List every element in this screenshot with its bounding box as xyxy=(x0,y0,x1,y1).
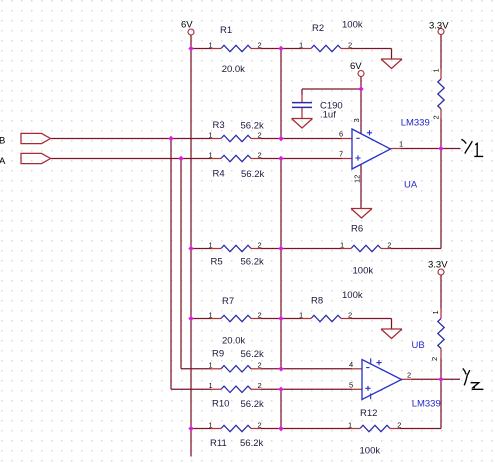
svg-text:2: 2 xyxy=(432,115,441,119)
svg-text:2: 2 xyxy=(258,130,262,139)
svg-text:1: 1 xyxy=(209,381,213,390)
svg-text:UB: UB xyxy=(412,340,425,351)
svg-text:LM339: LM339 xyxy=(412,399,441,410)
svg-text:12: 12 xyxy=(353,175,362,183)
svg-text:UA: UA xyxy=(404,180,418,191)
svg-text:2: 2 xyxy=(258,40,262,49)
svg-text:1: 1 xyxy=(399,140,403,149)
svg-text:4: 4 xyxy=(349,360,353,369)
svg-text:6V: 6V xyxy=(181,20,193,31)
svg-text:R12: R12 xyxy=(360,408,377,419)
svg-text:2: 2 xyxy=(348,310,352,319)
svg-text:100k: 100k xyxy=(360,446,381,457)
svg-text:6V: 6V xyxy=(350,61,362,72)
svg-text:1: 1 xyxy=(209,361,213,370)
svg-text:56.2k: 56.2k xyxy=(241,349,264,360)
svg-text:100k: 100k xyxy=(353,266,374,277)
svg-text:A: A xyxy=(0,156,6,167)
svg-text:R4: R4 xyxy=(213,169,225,180)
svg-text:R9: R9 xyxy=(212,349,224,360)
svg-text:1: 1 xyxy=(348,420,352,429)
svg-text:1: 1 xyxy=(209,310,213,319)
svg-text:20.0k: 20.0k xyxy=(222,336,245,347)
svg-text:5: 5 xyxy=(349,380,353,389)
svg-text:3.3V: 3.3V xyxy=(429,21,449,32)
svg-text:100k: 100k xyxy=(342,20,363,31)
svg-text:1: 1 xyxy=(299,40,303,49)
svg-text:LM339: LM339 xyxy=(401,118,430,129)
svg-text:.1uf: .1uf xyxy=(320,110,336,121)
svg-text:R5: R5 xyxy=(211,257,223,268)
svg-text:2: 2 xyxy=(258,310,262,319)
svg-text:1: 1 xyxy=(432,68,441,72)
svg-text:3.3V: 3.3V xyxy=(428,259,448,270)
svg-text:56.2k: 56.2k xyxy=(241,399,264,410)
svg-text:1: 1 xyxy=(209,420,213,429)
svg-text:R10: R10 xyxy=(212,399,229,410)
svg-text:R2: R2 xyxy=(312,23,324,34)
svg-text:2: 2 xyxy=(407,370,411,379)
svg-text:R11: R11 xyxy=(210,438,227,449)
svg-text:2: 2 xyxy=(258,150,262,159)
svg-text:20.0k: 20.0k xyxy=(222,64,245,75)
svg-text:R6: R6 xyxy=(351,224,363,235)
svg-text:R3: R3 xyxy=(213,120,225,131)
svg-text:1: 1 xyxy=(340,240,344,249)
svg-text:R7: R7 xyxy=(222,296,234,307)
svg-text:3: 3 xyxy=(352,118,361,122)
svg-text:56.2k: 56.2k xyxy=(241,169,264,180)
svg-text:2: 2 xyxy=(387,240,391,249)
svg-text:2: 2 xyxy=(258,381,262,390)
svg-text:2: 2 xyxy=(397,420,401,429)
svg-text:7: 7 xyxy=(339,150,343,159)
svg-text:1: 1 xyxy=(209,150,213,159)
svg-text:1: 1 xyxy=(209,40,213,49)
svg-text:1: 1 xyxy=(209,240,213,249)
svg-text:1: 1 xyxy=(431,310,440,314)
svg-text:2: 2 xyxy=(258,240,262,249)
svg-text:1: 1 xyxy=(299,310,303,319)
svg-text:B: B xyxy=(0,135,5,146)
svg-text:2: 2 xyxy=(258,361,262,370)
svg-text:R8: R8 xyxy=(311,296,323,307)
svg-text:100k: 100k xyxy=(342,290,363,301)
svg-text:6: 6 xyxy=(339,130,343,139)
svg-text:2: 2 xyxy=(348,40,352,49)
svg-text:56.2k: 56.2k xyxy=(240,438,263,449)
svg-text:R1: R1 xyxy=(220,25,232,36)
svg-text:56.2k: 56.2k xyxy=(241,257,264,268)
svg-text:1: 1 xyxy=(209,130,213,139)
svg-text:2: 2 xyxy=(258,420,262,429)
svg-text:2: 2 xyxy=(430,357,439,361)
